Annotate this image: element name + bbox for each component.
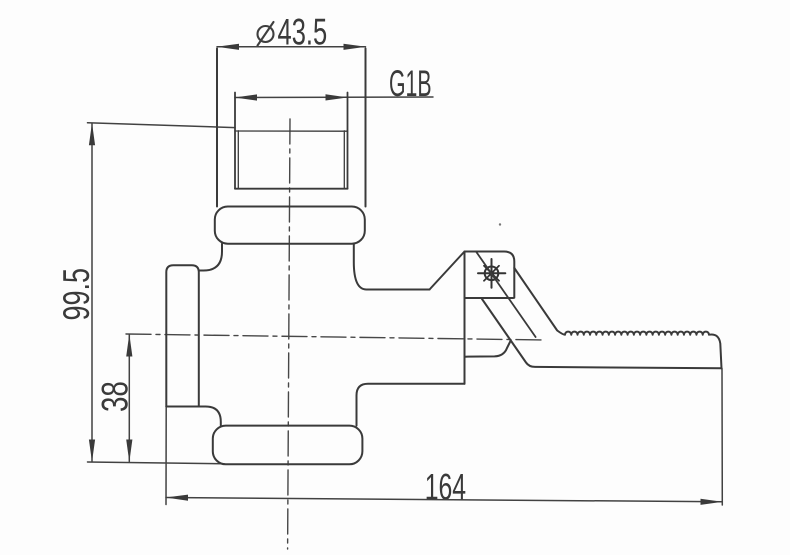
flange (left outlet) [166,265,199,406]
hex nut bottom [213,426,363,465]
dimension 99.5 line [91,124,93,462]
arrow 38 bottom [126,440,132,463]
body bottom-right edge + fillet down to bottom nut [357,384,465,426]
dimension text ø symbol [258,22,274,46]
dimension 38 line [128,335,130,462]
handwheel spoke NW-SE [484,266,499,281]
arrow 164 right [701,499,723,505]
top port outer wall right [365,49,367,207]
body neck right wall + fillet into right arm top edge [354,244,430,290]
arrow 99.5 top [89,123,95,146]
body right wall [464,298,466,384]
handwheel spoke horizontal [478,272,505,274]
lever top edge diagonal + knurled grip top + right end [514,268,721,368]
lever boss underside + fillet [465,341,511,357]
handwheel hub [489,271,494,276]
centerline vertical (axis of top port) [288,119,290,549]
dimension ø43.5 line [217,46,366,48]
thread outer line left [234,93,236,189]
arrow G1B right [326,94,348,100]
body neck left wall + fillet into left arm top edge [199,244,222,271]
dimension G1B line + leader [235,96,433,99]
arrow 99.5 bottom [89,440,95,463]
svg-text:99.5: 99.5 [56,268,97,321]
thread bottom line [235,188,348,190]
extension line 164 left (flange face) [165,407,167,505]
thread inner line right [343,131,345,189]
scan speck above bonnet [499,223,501,225]
top port outer wall left [216,49,218,207]
lever bottom edge + diagonal up to box [482,299,722,368]
lever centerline diagonal through wheel [476,252,536,338]
extension line bottom (99.5/38 to nut bottom) [88,462,225,464]
arrow G1B left [235,94,257,100]
arrow 164 left [166,495,188,501]
handwheel spoke vertical [491,259,493,288]
thread outer line right [347,93,349,189]
thread inner line left [237,131,239,189]
svg-text:164: 164 [425,465,466,507]
arrow ø43.5 left [217,44,240,50]
arrow ø43.5 right [344,44,367,50]
svg-text:G1B: G1B [389,64,432,104]
centerline horizontal (axis of side outlet) [126,334,543,340]
handwheel spoke NE-SW [484,266,499,281]
handwheel symbol circle [485,267,499,281]
thread top second line [235,130,348,132]
dimension 164 line [166,498,722,502]
hex nut top (collar) [215,207,365,244]
extension line 164 right (handle end) [721,369,723,506]
extension line top (99.5 to thread top) [88,123,236,128]
flange / arm bottom edge + fillet down to bottom nut [166,407,221,426]
arrow 38 top [126,334,132,357]
chamfer from arm up to bonnet box [430,252,465,290]
bonnet box [465,252,515,299]
